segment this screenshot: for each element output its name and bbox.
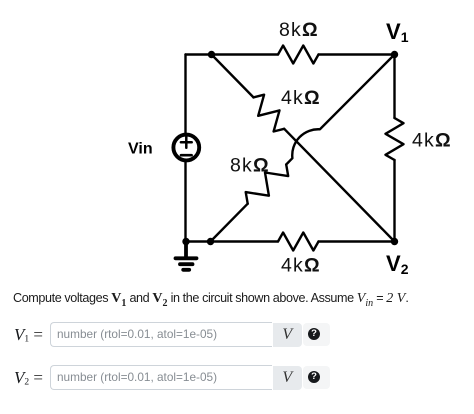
label Vin xyxy=(128,141,153,158)
node dot V2 xyxy=(391,238,398,245)
diagonal wire D2 with hop over D1 xyxy=(286,55,394,165)
svg-text:4kΩ: 4kΩ xyxy=(412,130,452,152)
label V1 xyxy=(386,19,409,45)
diagonal wire D1 lower (zigzag to V2) xyxy=(284,129,394,242)
label 4kOhm bottom xyxy=(281,255,321,277)
label 8kOhm diag xyxy=(230,155,270,177)
label 8kOhm top xyxy=(279,19,319,41)
wire top-left horizontal segment xyxy=(186,53,279,55)
wire right vertical lower xyxy=(393,160,395,242)
node dot top junction xyxy=(208,51,215,58)
node dot bottom junction xyxy=(207,238,214,245)
node dot V1 xyxy=(391,51,398,58)
diagonal wire D1 upper (junction to 4k zigzag) xyxy=(212,55,254,98)
circuit schematic image xyxy=(0,0,474,288)
resistor R-top 8k zigzag xyxy=(278,46,319,64)
label 4kOhm diag xyxy=(281,87,321,109)
svg-text:8kΩ: 8kΩ xyxy=(230,155,270,177)
wire top-right segment xyxy=(319,53,395,55)
source minus sign xyxy=(181,154,192,157)
answer row V1 xyxy=(12,322,14,347)
diagonal wire D2 lower (junction to 8k zigzag) xyxy=(211,204,248,242)
label 4kOhm right xyxy=(412,130,452,152)
svg-text:V2: V2 xyxy=(386,251,409,277)
svg-text:8kΩ: 8kΩ xyxy=(279,19,319,41)
svg-text:V1: V1 xyxy=(386,19,409,45)
source plus sign xyxy=(181,137,192,148)
resistor R-right 4k zigzag xyxy=(386,118,404,160)
wire bottom-left segment xyxy=(186,240,278,242)
svg-text:4kΩ: 4kΩ xyxy=(281,87,321,109)
answer row V2 xyxy=(12,365,14,390)
resistor R-diag2 8k zigzag xyxy=(246,165,289,204)
wire bottom-right segment xyxy=(319,240,395,242)
svg-text:4kΩ: 4kΩ xyxy=(281,255,321,277)
wire left vertical upper xyxy=(184,55,186,134)
wire right vertical upper xyxy=(393,55,395,119)
resistor R-diag1 4k zigzag xyxy=(254,95,285,132)
question text xyxy=(13,291,408,309)
label V2 xyxy=(386,251,409,277)
wire left vertical lower xyxy=(184,162,186,242)
svg-text:Vin: Vin xyxy=(128,141,153,158)
ground symbol xyxy=(176,242,197,270)
resistor R-bottom 4k zigzag xyxy=(278,233,319,251)
node dot bottom-left corner xyxy=(182,238,189,245)
source Vin circle xyxy=(173,135,199,161)
